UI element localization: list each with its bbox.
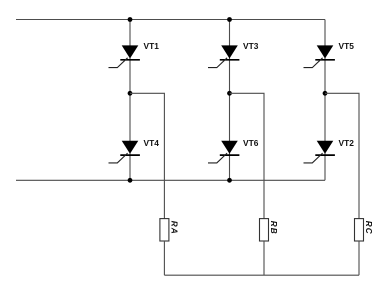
thyristor VT5 [304,45,335,67]
svg-text:RC: RC [364,221,373,235]
node E (junction dot, mid-point column 3) [323,91,328,96]
node A (junction dot, top rail / column 1) [128,17,133,22]
svg-text:VT4: VT4 [144,138,160,148]
node D (junction dot, mid-point column 2) [227,91,232,96]
wire: lower AC rail [16,179,325,181]
svg-text:VT3: VT3 [243,41,259,51]
node C (junction dot, mid-point column 1) [128,91,133,96]
wire: column 3 vertical (VT5/VT2 leg) [324,20,326,181]
wire: resistor RB bottom lead [263,241,265,275]
wire: column 2 vertical (VT3/VT6 leg) [229,20,231,181]
resistor RC [355,219,364,241]
wire: branch from mid-node 3 to resistor RC [325,93,359,218]
svg-text:VT2: VT2 [339,138,355,148]
node F (junction dot, lower rail / column 1) [128,178,133,183]
node B (junction dot, top rail / column 2) [227,17,232,22]
thyristor VT2 [304,141,335,163]
wire: branch from mid-node 1 to resistor RA [130,93,164,218]
wire: resistor RC bottom lead [358,241,360,275]
wire: top AC rail [16,19,325,21]
svg-text:VT1: VT1 [144,41,160,51]
resistor RB [260,219,269,241]
svg-text:RA: RA [170,221,179,235]
thyristor VT6 [208,141,239,163]
wire: branch from mid-node 2 to resistor RB [230,93,265,218]
thyristor VT1 [109,45,140,67]
wire: resistor RA bottom lead [163,241,165,275]
wire: column 1 vertical (VT1/VT4 leg) [129,20,131,181]
thyristor VT4 [109,141,140,163]
svg-text:VT6: VT6 [243,138,259,148]
thyristor VT3 [208,45,239,67]
node G (junction dot, lower rail / column 2) [227,178,232,183]
svg-text:RB: RB [269,221,278,235]
svg-text:VT5: VT5 [339,41,355,51]
resistor RA [160,219,169,241]
wire: common load return (star point) [164,274,359,276]
